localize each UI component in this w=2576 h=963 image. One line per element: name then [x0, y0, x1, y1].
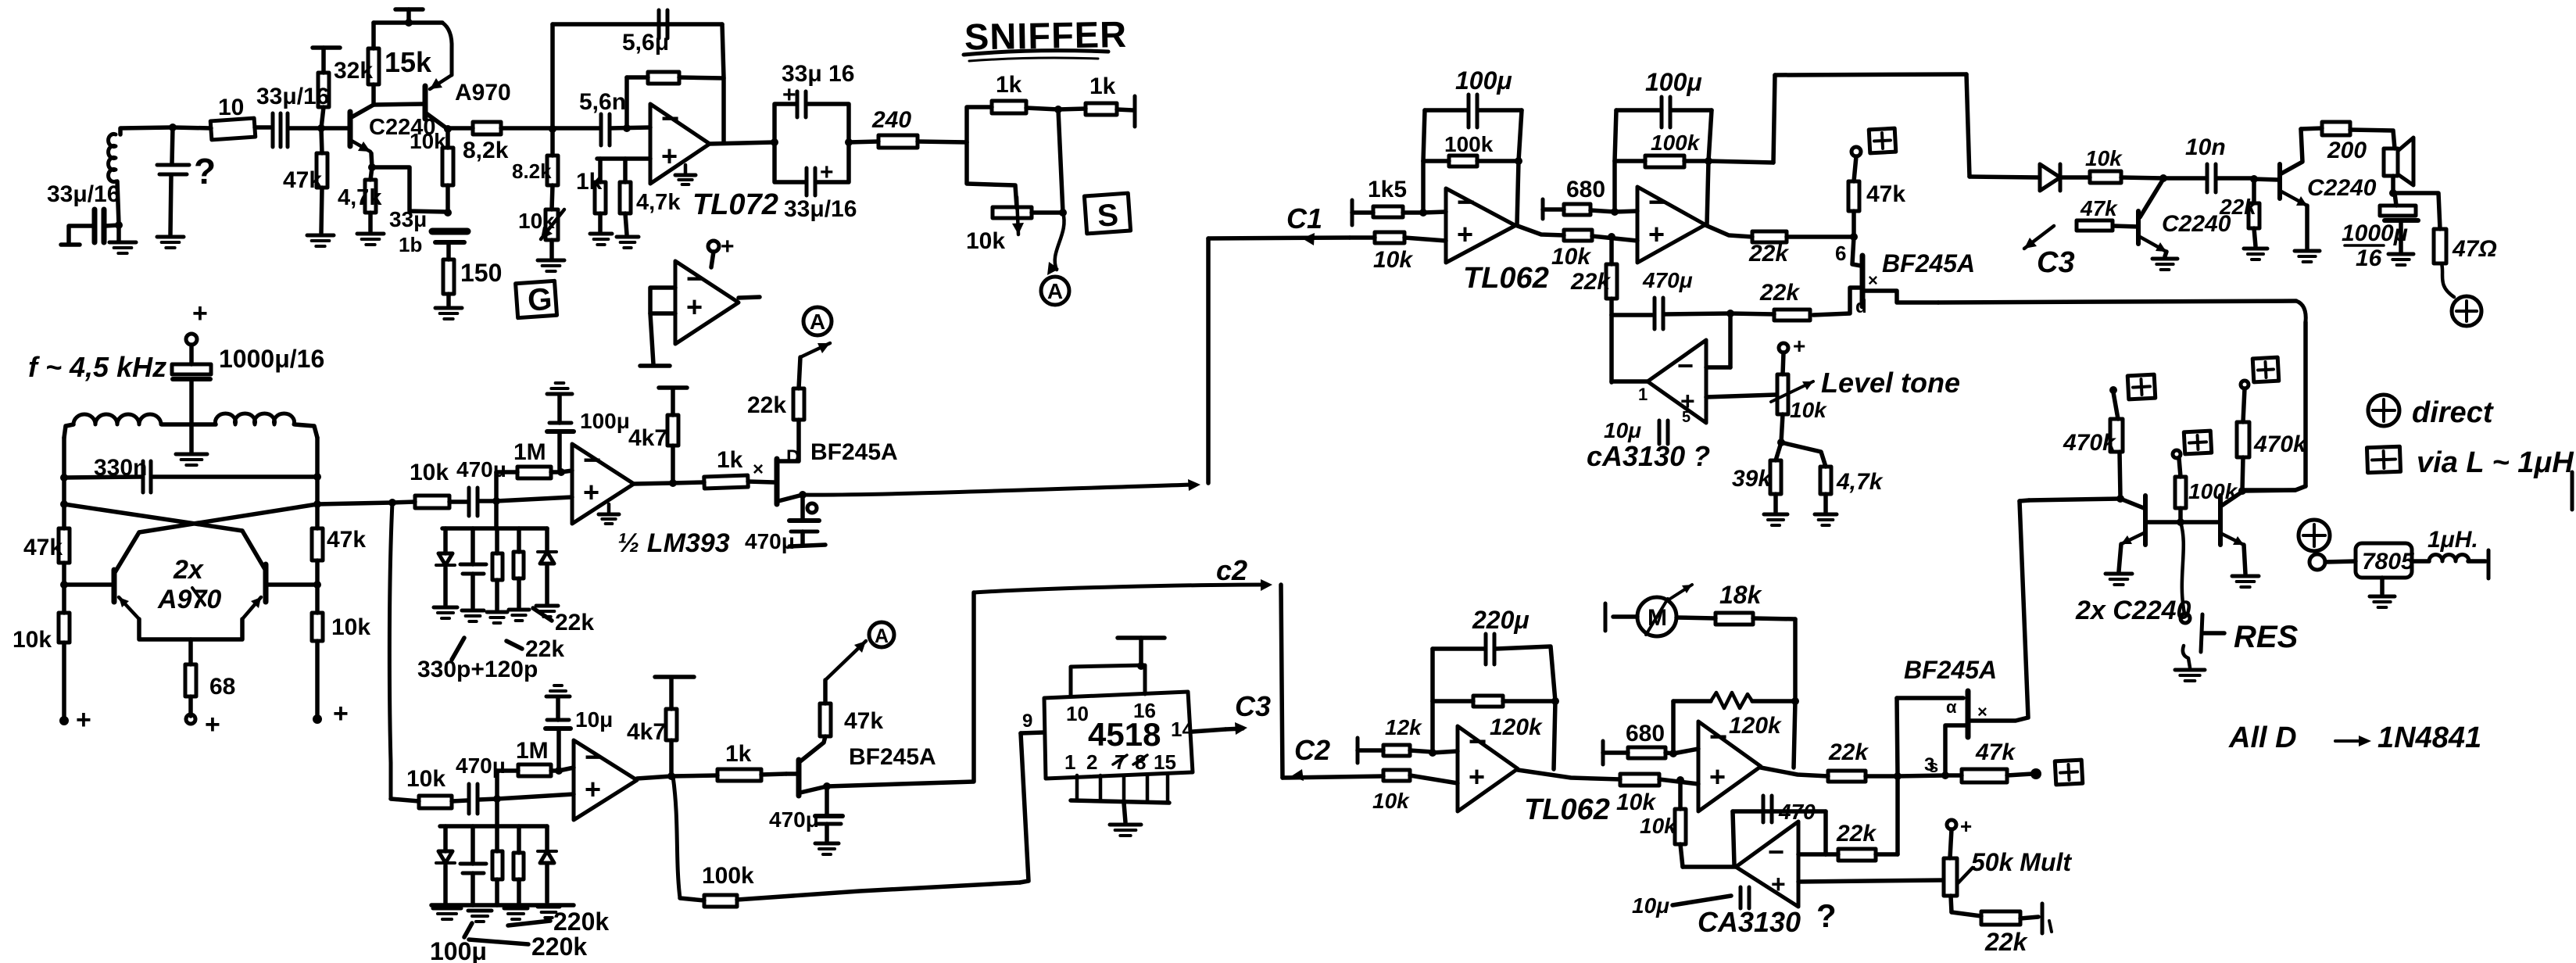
node 33u cap top — [444, 209, 452, 217]
svg-text:d: d — [1855, 296, 1867, 317]
wire fb down t4 — [1794, 701, 1795, 768]
capacitor 470n j2 — [815, 816, 843, 824]
wire left rail bot — [62, 643, 66, 719]
svg-text:+: + — [585, 773, 601, 805]
svg-text:A: A — [810, 310, 825, 334]
terminal 47k top — [1851, 147, 1861, 156]
svg-text:1k: 1k — [1089, 73, 1116, 99]
wire rail t1 — [1425, 108, 1467, 113]
capacitor ? — [157, 165, 189, 174]
capacitor 33u/1b bottom plate — [435, 240, 464, 245]
svg-text:+: + — [1793, 334, 1805, 358]
transistor Q5 collector — [2120, 499, 2144, 508]
ground 4.7k bias2 — [617, 237, 639, 248]
transistor Q3 emitter — [2140, 237, 2166, 252]
leader 10u ca2 — [1673, 896, 1731, 905]
resistor 4k7 level — [1820, 467, 1831, 494]
svg-text:22k: 22k — [1828, 739, 1869, 765]
wire 1k5 to node — [1403, 210, 1423, 215]
arrow C3 in — [2024, 226, 2054, 249]
wire 100k up — [2179, 458, 2181, 477]
wire rail up t2 — [1615, 110, 1616, 161]
resistor 100k fb — [704, 895, 737, 907]
svg-text:330p+120p: 330p+120p — [417, 657, 538, 682]
svg-text:1k: 1k — [996, 72, 1022, 98]
ground top 100n c1 — [547, 383, 572, 394]
inductor antenna coil — [109, 134, 116, 182]
wire zener down c1 — [443, 567, 448, 605]
capacitor 33u/16 third bar — [286, 113, 290, 147]
terminal 50k + — [1947, 820, 1956, 829]
wire node to 47k — [321, 128, 322, 153]
wire 470n down j1 — [800, 532, 805, 545]
wire 470n down j2 — [825, 824, 829, 841]
node jfet1 source — [799, 491, 807, 499]
node out c2 — [667, 772, 675, 780]
wire fb down to out — [721, 78, 726, 141]
wire cap to node c1 — [478, 499, 496, 503]
terminal o jfet1 — [807, 503, 817, 513]
wire C2 riser — [827, 592, 974, 786]
wire squiggle to A — [1055, 213, 1064, 270]
power T bar top — [395, 7, 423, 12]
ground 22kc c1 — [509, 610, 529, 621]
svg-text:47k: 47k — [327, 527, 366, 553]
ground bus c2 c — [504, 908, 528, 919]
capacitor mic 33u/16 — [95, 209, 104, 242]
svg-text:10k: 10k — [518, 209, 555, 233]
wire 10k to cap c2 — [452, 800, 467, 801]
wire 4k7 stem c1 — [671, 446, 675, 483]
wire U1b inputs tie — [650, 288, 675, 313]
node jfet2 source — [823, 782, 831, 790]
resistor 4.7k bias2 — [620, 182, 631, 213]
wire diode line l — [1970, 177, 2038, 177]
wire node2 up — [550, 24, 555, 129]
wire U4 out — [1515, 225, 1564, 235]
svg-text:2x C2240: 2x C2240 — [2075, 596, 2191, 625]
wire 100k stem — [2178, 508, 2183, 522]
svg-text:100k: 100k — [1444, 132, 1494, 156]
svg-text:+: + — [1960, 814, 1972, 838]
wire to 120k t4 — [1673, 699, 1711, 703]
arrowhead c2 top — [1261, 579, 1272, 591]
op-amp U8 TL062d — [1698, 720, 1761, 811]
svg-text:f ~ 4,5 kHz: f ~ 4,5 kHz — [28, 351, 166, 383]
resistor 10k t3 — [1383, 770, 1410, 781]
power box + out — [2055, 760, 2083, 785]
wire 4k7 level down — [1823, 494, 1828, 512]
wire osc out — [317, 503, 392, 504]
svg-text:7805: 7805 — [2362, 549, 2415, 575]
svg-text:10k: 10k — [1616, 789, 1656, 815]
resistor 240 — [878, 135, 918, 148]
transistor Q5 base bar — [2143, 496, 2148, 545]
ground top 10u c2 — [546, 686, 570, 696]
terminal supply circ — [2299, 520, 2330, 551]
wire C1 long — [803, 485, 1193, 495]
ground RES — [2175, 670, 2205, 681]
arrow meter adj — [1670, 585, 1692, 599]
wire minus up t4 — [1671, 701, 1676, 754]
wire U2 out — [634, 483, 673, 484]
wire 22kv down — [1609, 299, 1614, 315]
diode zener c1 — [436, 553, 455, 565]
wire Q2col to 8.2k — [448, 126, 473, 131]
capacitor 10u c2 — [546, 720, 571, 729]
arrowhead C1 top — [1302, 233, 1315, 245]
wire rail up t3 — [1430, 649, 1435, 701]
svg-text:220k: 220k — [531, 933, 587, 961]
power T 4k7 c2 — [655, 675, 694, 679]
svg-text:C3: C3 — [1235, 690, 1271, 722]
wire bar to 680 t4 — [1603, 750, 1628, 755]
terminal 100k top — [2173, 450, 2181, 458]
svg-text:1k: 1k — [725, 741, 752, 767]
power box + jfet2a — [1869, 128, 1896, 153]
wire minus in c1 — [561, 471, 572, 472]
wire right rail bot — [315, 641, 320, 718]
wire 4518 bottom pins — [1075, 775, 1079, 800]
node fb out t1 — [1515, 157, 1522, 165]
resistor 4k7 c2 — [666, 709, 677, 740]
transistor Q3 collector — [2140, 179, 2163, 217]
wire out down to 100k — [673, 776, 680, 898]
node 4518 tab — [1137, 662, 1145, 670]
wire 22kb down c1 — [495, 580, 499, 610]
wire main to 10k t3 — [1283, 776, 1383, 778]
trimmer arrow S — [1012, 197, 1024, 234]
ground bus c2 b — [468, 911, 492, 922]
ground U2 stem — [607, 504, 611, 513]
wire 22kv stem — [1609, 237, 1614, 264]
transistor QR emitter — [242, 597, 261, 619]
svg-text:S: S — [1097, 198, 1120, 234]
wire rail t2 — [1616, 108, 1660, 113]
svg-text:330n: 330n — [94, 455, 147, 481]
ground trimmer G — [538, 260, 564, 271]
leader 330p — [452, 638, 464, 660]
svg-text:6: 6 — [1835, 242, 1846, 265]
svg-text:47Ω: 47Ω — [2452, 236, 2497, 262]
wire 470n stem j2 — [825, 786, 829, 814]
wire colR right — [2242, 490, 2295, 491]
wire 39k down — [1773, 494, 1778, 512]
op-amp U6 CA3130a — [1648, 340, 1706, 423]
wire 8.2kv stem — [550, 129, 555, 156]
transistor Q4 collector — [2281, 129, 2302, 174]
wire ca1 plus — [1706, 395, 1776, 397]
wire jfet2 drain — [800, 736, 825, 761]
node top rail supply — [405, 19, 413, 27]
wire top supply rail — [1775, 74, 1966, 75]
wire riser pin9 — [1020, 733, 1029, 882]
svg-text:+: + — [820, 159, 834, 185]
node TL072 in — [549, 125, 556, 133]
svg-text:1: 1 — [1064, 750, 1075, 774]
wire 47k stem — [1854, 156, 1856, 181]
svg-text:15: 15 — [1154, 750, 1176, 774]
svg-text:+: + — [1648, 218, 1665, 250]
svg-text:10μ: 10μ — [1632, 893, 1669, 918]
terminal + right — [313, 714, 322, 724]
ground clampcap c1 — [462, 610, 484, 621]
node fb out t3 — [1551, 697, 1559, 705]
resistor 47k bias — [317, 153, 327, 188]
resistor 8.2k vert — [547, 156, 558, 185]
capacitor 100u t2 — [1662, 97, 1670, 127]
capacitor clamp c1 — [460, 564, 486, 574]
wire 680 to node t4 — [1665, 753, 1673, 754]
wire speaker to 47R — [2393, 193, 2440, 229]
node colR — [2238, 487, 2246, 495]
svg-text:+: + — [583, 476, 599, 508]
wire 1000u stem — [189, 345, 194, 364]
svg-text:?: ? — [194, 151, 216, 192]
arrow to A2 — [800, 343, 830, 357]
capacitor 33u/1b top plate — [432, 228, 467, 235]
wire to 10k c2 — [391, 799, 419, 801]
wire Q3 base — [2113, 226, 2138, 227]
svg-text:+: + — [205, 710, 220, 739]
svg-text:68: 68 — [209, 674, 235, 700]
svg-text:4518: 4518 — [1088, 716, 1161, 753]
svg-text:10k: 10k — [1372, 789, 1410, 813]
wire speaker down — [2391, 176, 2395, 193]
terminal 470n bar j1 — [789, 545, 825, 546]
wire clampcap down c1 — [470, 574, 475, 608]
wire 22k ca2 r — [1876, 852, 1898, 857]
transistor Q4 C2240 base bar — [2277, 164, 2282, 199]
leader 220k c2a — [508, 921, 550, 925]
label 16 underline — [2345, 244, 2384, 247]
wire ca2 minus up — [1823, 811, 1828, 854]
terminal plus2 dot — [2030, 768, 2041, 779]
resistor 10k c2 — [419, 796, 452, 808]
svg-text:−: − — [661, 102, 679, 136]
resistor 10k t4in — [1620, 774, 1659, 786]
svg-text:100μ: 100μ — [580, 409, 630, 433]
resistor 15k — [368, 48, 379, 84]
capacitor 100n c1 plates — [547, 423, 574, 431]
power T 4k7 c1 — [659, 385, 687, 390]
wire node to ?cap — [172, 127, 173, 163]
resistor 32k — [318, 73, 329, 107]
wire 10k to plus t1 — [1404, 238, 1446, 241]
svg-text:4,7k: 4,7k — [636, 190, 681, 215]
svg-text:15k: 15k — [385, 46, 432, 78]
wire M left — [1613, 614, 1637, 619]
transistor Q3 C2240 base bar — [2136, 211, 2141, 244]
leader 22k c1b — [506, 641, 522, 649]
svg-text:4,7k: 4,7k — [1836, 469, 1884, 495]
inductor tank right — [216, 413, 295, 424]
wire 68 stem — [188, 639, 193, 664]
wire node to R10 — [173, 127, 211, 128]
svg-text:cA3130 ?: cA3130 ? — [1587, 440, 1710, 472]
leader 100n c2 — [464, 923, 472, 937]
node minus t2 — [1611, 208, 1619, 216]
svg-text:150: 150 — [460, 259, 502, 287]
ground 22k det — [2244, 249, 2267, 260]
svg-text:C3: C3 — [2037, 246, 2075, 279]
svg-text:10k: 10k — [13, 627, 52, 653]
transistor Q1 C2240 base bar — [348, 112, 353, 146]
node base bias — [317, 124, 325, 132]
title underline — [964, 51, 1108, 55]
speaker box — [2384, 149, 2398, 176]
resistor 50k pot — [1944, 858, 1957, 896]
capacitor 1000u/16 plate2 — [173, 377, 210, 381]
wire 7805 out — [2412, 559, 2429, 564]
wire node3 right — [1898, 775, 1945, 776]
svg-text:A: A — [1047, 279, 1063, 303]
note arrow — [2335, 736, 2371, 746]
svg-text:100k: 100k — [1651, 131, 1701, 155]
wire coil to mic node — [117, 181, 119, 224]
wire Q3 emitter down — [2165, 252, 2166, 256]
ground bus c2 d — [538, 907, 560, 918]
resistor 47k osc R — [312, 528, 323, 560]
wire 32k to node — [321, 107, 324, 128]
wire cap block top r — [807, 104, 849, 142]
wire 10u stem c2 — [556, 729, 561, 771]
svg-text:240: 240 — [871, 107, 911, 133]
wire Q1 collector up — [371, 84, 376, 105]
wire 47k to arrow j2 — [823, 680, 828, 703]
wire left rail top — [62, 438, 66, 528]
wire 50k stem — [1950, 829, 1952, 858]
wire jfet2 gate — [786, 771, 796, 776]
wire top rail — [374, 20, 442, 25]
wire 10k down — [445, 185, 450, 212]
ground U2 — [599, 514, 619, 524]
wire U3 out — [637, 776, 671, 779]
wire level down — [1781, 414, 1783, 442]
node 22k hang — [1608, 233, 1615, 241]
wire to 1M c1 — [496, 470, 517, 474]
wire pin9 — [1021, 732, 1044, 733]
svg-text:×: × — [1868, 270, 1878, 290]
wire rail t1 r — [1479, 108, 1522, 113]
wire 330n left — [64, 477, 141, 478]
svg-text:8.2k: 8.2k — [512, 159, 552, 183]
wire out to 1k c1 — [673, 482, 704, 483]
resistor 10k trimmer S — [993, 207, 1032, 218]
wire diode2 stem c2 — [545, 826, 549, 851]
arrowhead C3 4518 — [1235, 722, 1247, 735]
wire left rail mid — [62, 563, 66, 613]
wire Q4 col to 200 — [2301, 128, 2322, 129]
svg-text:+: + — [76, 705, 91, 735]
wire 470kR up — [2243, 388, 2245, 422]
svg-text:220μ: 220μ — [1472, 606, 1529, 634]
resistor 22k det — [2249, 203, 2259, 228]
resistor 120k t3 — [1473, 696, 1503, 707]
wire ca2 plus — [1798, 880, 1943, 882]
resistor 39k — [1770, 460, 1781, 494]
terminal A sniffer — [1041, 277, 1069, 305]
resistor 10k Q2 — [442, 148, 453, 185]
svg-text:680: 680 — [1566, 177, 1605, 202]
wire minus in t3 — [1433, 751, 1458, 753]
svg-text:+: + — [1469, 761, 1485, 793]
wire minus up t2 — [1612, 161, 1617, 212]
node trimmer out — [1059, 209, 1067, 217]
node fb out t4 — [1791, 697, 1799, 705]
capacitor 10n — [2207, 164, 2216, 192]
terminal A jfet1 — [803, 307, 832, 335]
resistor 200 — [2322, 122, 2350, 135]
wire QL base — [64, 582, 114, 587]
wire emitter bus — [139, 619, 242, 639]
terminal mic left bar — [61, 242, 80, 247]
wire jfet2a gate — [1813, 288, 1861, 315]
svg-text:10k: 10k — [406, 766, 445, 792]
wire ca2fb up — [1678, 780, 1683, 809]
svg-text:+: + — [721, 234, 735, 260]
wire 1uH out — [2468, 559, 2485, 564]
svg-text:BF245A: BF245A — [1882, 249, 1975, 277]
svg-text:2x: 2x — [173, 555, 205, 585]
speaker cone — [2398, 138, 2413, 185]
svg-text:33μ/16: 33μ/16 — [784, 196, 857, 222]
svg-text:14: 14 — [1171, 718, 1193, 741]
node cap block left — [771, 138, 778, 146]
wire zener stem c1 — [443, 528, 448, 553]
wire coil left bend — [64, 424, 73, 438]
transistor Q2 collector — [425, 113, 445, 127]
svg-text:9: 9 — [1022, 711, 1032, 732]
wire 470kL down — [2120, 452, 2120, 497]
wire long fb top — [1938, 301, 2296, 303]
svg-text:A: A — [875, 625, 889, 647]
wire 200 to speaker — [2350, 130, 2395, 149]
svg-text:Level tone: Level tone — [1821, 367, 1960, 399]
node input junction — [169, 124, 177, 131]
resistor 220k clamp2 — [513, 853, 524, 879]
resistor 10k osc L — [59, 613, 70, 643]
svg-text:680: 680 — [1626, 721, 1665, 746]
svg-text:10k: 10k — [410, 129, 446, 153]
wire 5,6u top rail — [553, 22, 722, 27]
wire node to 1k b — [1058, 109, 1086, 109]
wire rail corner up — [1773, 75, 1775, 163]
ground diode2 c1 — [536, 606, 558, 617]
resistor 22k t4out — [1828, 771, 1866, 782]
wire ca1 minus — [1706, 365, 1730, 370]
svg-text:10k: 10k — [1790, 398, 1827, 422]
wire 22k to jfet node — [1787, 234, 1854, 239]
resistor 22k vert — [1606, 264, 1617, 299]
wire 5,6n to minus — [610, 127, 650, 128]
wire fb bottom corner — [2245, 486, 2306, 490]
wire 1k to jfet c1 — [748, 481, 774, 482]
svg-text:1k5: 1k5 — [1368, 177, 1407, 202]
transistor Q1 emitter — [350, 140, 370, 152]
meter needle — [1646, 599, 1668, 635]
op-amp U3 LM393b — [574, 740, 637, 820]
wire to 100k t2 — [1615, 159, 1645, 163]
svg-text:220k: 220k — [553, 908, 609, 936]
capacitor 100u t1 — [1469, 95, 1477, 127]
wire 4518 gnd stem — [1124, 803, 1125, 822]
op-amp U1 TL072a — [650, 102, 710, 184]
wire meter to 18k — [1753, 618, 1795, 619]
svg-text:100μ: 100μ — [1455, 66, 1512, 95]
svg-text:33μ/16: 33μ/16 — [47, 181, 120, 207]
wire fb down t1 — [1517, 161, 1519, 224]
